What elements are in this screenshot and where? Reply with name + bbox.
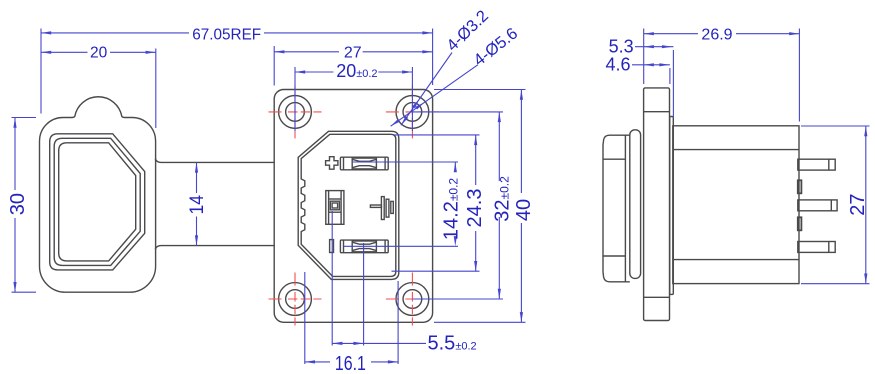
neutral marker tick <box>330 240 334 253</box>
mounting hole bottom-right bore Ø3.2 <box>403 290 422 309</box>
dim 4.6 extension right <box>669 68 671 84</box>
side view shroud face line bottom <box>603 255 625 257</box>
dim 24.3 extension top <box>394 134 480 136</box>
svg-text:27: 27 <box>847 193 869 215</box>
dim 27 side extension top <box>801 125 870 127</box>
svg-text:24.3: 24.3 <box>464 189 486 228</box>
leader 4-Ø3.2 <box>401 53 452 126</box>
dim 27 side extension bottom <box>801 283 870 285</box>
mounting hole top-left bore Ø3.2 <box>286 103 305 122</box>
dim 32±0.2 extension top <box>413 111 503 113</box>
dim 20 arrows <box>41 51 51 54</box>
dim 40 extension top <box>434 89 526 91</box>
cap inner contour 3 <box>59 143 136 261</box>
earth symbol <box>370 197 393 220</box>
dim 5.5±0.2 extension right <box>363 243 365 346</box>
dim 14.2±0.2 extension top <box>353 161 458 163</box>
dim 67.05REF arrows <box>41 31 51 34</box>
svg-text:67.05REF: 67.05REF <box>192 27 261 44</box>
dim 26.9 arrows <box>644 32 654 35</box>
mounting hole top-right counterbore Ø5.6 <box>396 96 429 129</box>
solder pin middle <box>798 200 837 211</box>
dim 26.9 extension right <box>798 29 800 122</box>
dim 16.1 line <box>305 361 330 363</box>
svg-text:40: 40 <box>513 199 535 221</box>
gasket behind flange <box>670 117 674 295</box>
flange step line upper <box>644 111 670 113</box>
hole bottom-right centerline vertical <box>411 273 413 326</box>
hole top-right centerline horizontal <box>386 111 439 113</box>
svg-text:20: 20 <box>90 45 108 62</box>
hole top-left centerline horizontal <box>269 111 322 113</box>
mounting hole bottom-left bore Ø3.2 <box>286 290 305 309</box>
dim 20±0.2 extension right <box>411 67 413 131</box>
plug cap outer outline <box>40 97 156 292</box>
dim 30 arrows <box>13 118 16 128</box>
dim 16.1 extension right <box>397 281 399 364</box>
connecting bar top edge <box>155 159 274 163</box>
side view shroud face line top <box>603 158 625 160</box>
mounting plate outline <box>274 90 432 323</box>
svg-text:16.1: 16.1 <box>335 353 366 374</box>
dim 20±0.2 extension left <box>294 67 296 131</box>
solder pin bottom <box>798 242 835 253</box>
dim 5.5±0.2 extension left <box>331 211 333 346</box>
dim 30 line <box>14 118 16 191</box>
cap inner contour 1 <box>50 134 145 270</box>
dim 5.3 extension right <box>672 50 674 117</box>
dim 4.6 line <box>632 64 670 66</box>
dim 27 line <box>274 51 339 53</box>
dim 67.05REF extension right <box>432 29 434 86</box>
dim 27 extension left <box>273 46 275 86</box>
hole top-right centerline vertical <box>411 85 413 138</box>
dim 5.3 arrows <box>644 45 654 48</box>
slot between pins upper <box>798 180 802 193</box>
polarity plus mark <box>326 157 338 170</box>
switch / fuse drawer block <box>326 191 344 225</box>
svg-text:26.9: 26.9 <box>701 27 732 44</box>
dim 14.2±0.2 extension bottom <box>344 245 458 247</box>
dim 24.3 line <box>475 135 477 185</box>
slot between pins lower <box>798 217 802 230</box>
hole bottom-left centerline vertical <box>294 273 296 326</box>
side view flange plate <box>644 88 670 321</box>
flange step line lower <box>644 296 670 298</box>
dim 4.6 arrows <box>644 63 654 66</box>
dim 27 side line <box>865 126 867 284</box>
side view body step line bottom <box>673 259 799 261</box>
dim 26.9 extension left <box>643 29 645 85</box>
hole top-left centerline vertical <box>294 85 296 138</box>
side view seal lip <box>630 130 641 279</box>
dim 27 side arrows <box>864 126 867 136</box>
mounting hole bottom-right counterbore Ø5.6 <box>396 283 429 316</box>
svg-text:27: 27 <box>344 44 362 61</box>
side view shroud cup <box>603 135 630 282</box>
mounting hole top-right bore Ø3.2 <box>403 103 422 122</box>
svg-text:4.6: 4.6 <box>605 55 630 75</box>
dim 24.3 arrows <box>474 135 477 145</box>
hole bottom-left centerline horizontal <box>269 298 322 300</box>
dim 20 line <box>41 51 88 53</box>
dim 20 extension right <box>155 49 157 129</box>
mounting hole bottom-left counterbore Ø5.6 <box>279 283 312 316</box>
dim 20±0.2 arrows <box>295 70 305 73</box>
dim 40 arrows <box>520 90 523 100</box>
cap inner contour 2 <box>54 138 140 265</box>
socket face outer outline <box>298 131 399 279</box>
dim 14.2±0.2 arrows <box>454 162 457 172</box>
hole bottom-right centerline horizontal <box>386 298 439 300</box>
dim 14.2±0.2 line <box>454 162 456 172</box>
solder pin top <box>798 159 835 170</box>
dim 24.3 extension bottom <box>392 270 480 272</box>
svg-text:5.3: 5.3 <box>609 36 634 56</box>
connecting bar bottom edge <box>155 246 274 250</box>
leader 4-Ø5.6 <box>391 65 478 127</box>
mounting hole top-left counterbore Ø5.6 <box>279 96 312 129</box>
dim 26.9 line <box>644 33 698 35</box>
dim 40 line <box>520 90 522 194</box>
dim 5.5±0.2 line <box>332 342 363 344</box>
dim 32±0.2 arrows <box>498 112 501 122</box>
dim 16.1 arrows <box>305 360 315 363</box>
side view neck line <box>624 135 626 282</box>
dim 30 extension top <box>12 117 37 119</box>
dim 20±0.2 line <box>295 71 333 73</box>
svg-text:14: 14 <box>187 195 208 215</box>
dim 67.05REF extension left <box>40 29 42 114</box>
dim 32±0.2 line <box>498 112 500 181</box>
dim 16.1 extension left <box>304 272 306 364</box>
dim 30 extension bottom <box>12 291 37 293</box>
dim 5.5±0.2 arrows <box>332 342 342 345</box>
socket face inner contour with key notches <box>301 134 396 276</box>
dim 40 extension bottom <box>434 321 526 323</box>
dim 27 arrows <box>274 50 284 53</box>
svg-text:30: 30 <box>7 193 29 215</box>
dim 32±0.2 extension bottom <box>413 298 503 300</box>
dim 14 arrows <box>195 162 198 172</box>
side view body outline <box>673 126 799 284</box>
fuse holder bottom (neutral contact) <box>340 240 388 253</box>
dim 14 line <box>196 162 198 193</box>
dim 67.05REF line <box>41 32 189 34</box>
side view body step line top <box>673 149 799 151</box>
dim 5.3 line <box>635 46 673 48</box>
fuse holder top (line contact) <box>340 157 388 170</box>
